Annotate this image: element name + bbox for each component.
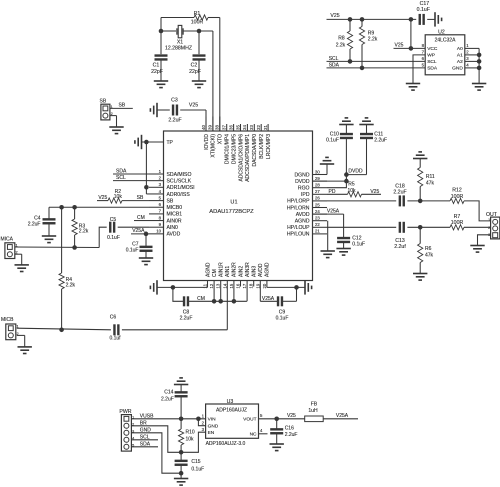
- svg-text:R1: R1: [194, 11, 201, 17]
- svg-text:AIN1: AIN1: [225, 266, 231, 277]
- svg-text:SCL/SCLK: SCL/SCLK: [167, 178, 192, 184]
- svg-text:0.1uF: 0.1uF: [107, 235, 120, 241]
- svg-text:TP: TP: [167, 140, 174, 146]
- svg-text:ADAU1772BCPZ: ADAU1772BCPZ: [209, 209, 254, 215]
- svg-text:A1: A1: [457, 53, 463, 59]
- svg-text:39: 39: [208, 125, 213, 130]
- svg-text:LRCK/MP3: LRCK/MP3: [266, 134, 272, 159]
- svg-text:ADCSDA0/PDM/MP1: ADCSDA0/PDM/MP1: [245, 134, 251, 182]
- svg-text:DVDD: DVDD: [295, 179, 310, 185]
- svg-text:PD: PD: [329, 189, 336, 195]
- svg-text:1uH: 1uH: [308, 408, 318, 414]
- svg-text:0.1uF: 0.1uF: [191, 466, 204, 472]
- svg-text:WP: WP: [427, 53, 435, 59]
- svg-text:C2: C2: [191, 63, 198, 69]
- svg-text:V25A: V25A: [132, 228, 145, 234]
- svg-text:100R: 100R: [451, 194, 464, 200]
- svg-text:IPD: IPD: [301, 192, 310, 198]
- svg-text:AIN2R: AIN2R: [232, 262, 238, 277]
- svg-text:AIN0: AIN0: [167, 225, 178, 231]
- svg-text:V25: V25: [287, 413, 296, 419]
- svg-text:SCL: SCL: [427, 59, 437, 65]
- svg-text:SB: SB: [118, 103, 125, 109]
- svg-text:R6: R6: [425, 246, 432, 252]
- svg-text:AIN1R: AIN1R: [219, 262, 225, 277]
- svg-text:DACSDA/MP0: DACSDA/MP0: [252, 134, 258, 167]
- svg-text:C3: C3: [171, 98, 178, 104]
- svg-text:37: 37: [222, 125, 227, 130]
- svg-text:R11: R11: [426, 174, 435, 180]
- svg-text:26: 26: [315, 196, 320, 201]
- svg-text:C5: C5: [110, 217, 117, 223]
- svg-text:0.1uF: 0.1uF: [126, 248, 139, 254]
- svg-text:C4: C4: [34, 215, 41, 221]
- svg-text:HP/LOUP: HP/LOUP: [287, 225, 310, 231]
- svg-text:C7: C7: [132, 241, 139, 247]
- svg-text:100R: 100R: [451, 220, 464, 226]
- svg-text:15: 15: [229, 283, 234, 288]
- svg-text:RGO: RGO: [298, 186, 310, 192]
- svg-text:27: 27: [315, 189, 320, 194]
- svg-text:2.2uF: 2.2uF: [374, 137, 387, 143]
- svg-text:33: 33: [249, 125, 254, 130]
- svg-text:19: 19: [255, 283, 260, 288]
- svg-text:12: 12: [209, 283, 214, 288]
- svg-text:29: 29: [315, 176, 320, 181]
- svg-text:C17: C17: [420, 1, 430, 7]
- svg-text:31: 31: [263, 125, 268, 130]
- svg-text:0.1uF: 0.1uF: [276, 315, 289, 321]
- svg-text:2.2k: 2.2k: [368, 37, 378, 43]
- svg-text:VIN: VIN: [208, 417, 217, 423]
- svg-text:U1: U1: [230, 200, 237, 206]
- svg-text:0.1uF: 0.1uF: [352, 241, 365, 247]
- svg-text:2.2uF: 2.2uF: [168, 118, 181, 124]
- svg-text:24: 24: [315, 209, 320, 214]
- svg-text:13: 13: [216, 283, 221, 288]
- svg-text:IOVDD: IOVDD: [204, 134, 210, 150]
- svg-text:GND: GND: [208, 424, 219, 430]
- svg-text:AIN3R: AIN3R: [245, 262, 251, 277]
- svg-text:2.2uF: 2.2uF: [285, 432, 298, 438]
- svg-text:1: 1: [488, 218, 490, 222]
- svg-text:AIN0R: AIN0R: [167, 218, 182, 224]
- svg-text:AGND: AGND: [295, 219, 310, 225]
- svg-text:ADR1/MOSI: ADR1/MOSI: [167, 185, 195, 191]
- svg-text:47k: 47k: [425, 253, 434, 259]
- svg-text:MICB: MICB: [1, 317, 14, 323]
- svg-text:AVDD: AVDD: [296, 212, 310, 218]
- svg-text:VOUT: VOUT: [243, 417, 256, 423]
- svg-text:10k: 10k: [186, 437, 195, 443]
- svg-text:CM: CM: [137, 215, 145, 221]
- svg-text:VCC: VCC: [427, 46, 438, 52]
- svg-text:12.288MHZ: 12.288MHZ: [165, 46, 192, 52]
- svg-text:AVDD: AVDD: [167, 232, 181, 238]
- svg-text:28: 28: [315, 183, 320, 188]
- svg-text:MICB1: MICB1: [167, 212, 183, 218]
- svg-text:V25: V25: [330, 13, 339, 19]
- svg-text:AGND: AGND: [265, 262, 271, 277]
- svg-text:22: 22: [315, 222, 320, 227]
- svg-text:2.2uf: 2.2uf: [394, 244, 406, 250]
- svg-text:CM: CM: [197, 296, 205, 302]
- svg-text:2: 2: [488, 226, 490, 230]
- svg-text:34: 34: [242, 125, 247, 130]
- svg-text:NC: NC: [250, 432, 257, 438]
- svg-text:10k: 10k: [114, 194, 123, 200]
- svg-text:DVDD: DVDD: [348, 169, 363, 175]
- svg-text:25: 25: [315, 202, 320, 207]
- svg-text:2.2uF: 2.2uF: [180, 315, 193, 321]
- svg-text:10k: 10k: [347, 188, 356, 194]
- svg-text:ADP160AUJZ: ADP160AUJZ: [216, 407, 247, 413]
- svg-text:2.2uF: 2.2uF: [161, 396, 174, 402]
- svg-text:C14: C14: [164, 389, 173, 395]
- svg-text:2.2k: 2.2k: [336, 43, 346, 49]
- svg-text:47k: 47k: [426, 181, 435, 187]
- svg-text:XTO: XTO: [218, 134, 224, 144]
- svg-text:R10: R10: [186, 429, 195, 435]
- svg-text:21: 21: [315, 229, 320, 234]
- svg-text:2.2uF: 2.2uF: [28, 222, 41, 228]
- svg-text:V25: V25: [189, 103, 198, 109]
- svg-text:DGND: DGND: [295, 172, 310, 178]
- svg-text:AIN2: AIN2: [238, 266, 244, 277]
- svg-text:R8: R8: [338, 36, 345, 42]
- svg-text:GND: GND: [452, 66, 463, 72]
- svg-text:FB: FB: [311, 402, 318, 408]
- svg-text:ADP160AUJZ-3.0: ADP160AUJZ-3.0: [206, 441, 246, 447]
- svg-text:HP/LORN: HP/LORN: [287, 205, 310, 211]
- svg-text:V25A: V25A: [327, 208, 340, 214]
- svg-text:V25A: V25A: [262, 296, 275, 302]
- svg-text:BCLK/MP2: BCLK/MP2: [259, 134, 265, 159]
- svg-text:SCL: SCL: [116, 175, 126, 181]
- svg-text:C6: C6: [110, 315, 117, 321]
- svg-text:22pF: 22pF: [189, 69, 201, 75]
- svg-text:32: 32: [256, 125, 261, 130]
- svg-text:DMIC01/MP4: DMIC01/MP4: [225, 134, 231, 164]
- svg-text:V25A: V25A: [336, 413, 349, 419]
- svg-text:23: 23: [315, 216, 320, 221]
- svg-text:DMIC23/MP5: DMIC23/MP5: [231, 134, 237, 164]
- svg-text:30: 30: [315, 169, 320, 174]
- svg-text:20: 20: [262, 283, 267, 288]
- svg-text:0.1uF: 0.1uF: [326, 137, 339, 143]
- svg-text:16: 16: [236, 283, 241, 288]
- svg-text:2.2k: 2.2k: [79, 229, 89, 235]
- svg-text:35: 35: [235, 125, 240, 130]
- svg-text:ADCSDA1/CKO/MP6: ADCSDA1/CKO/MP6: [238, 134, 244, 182]
- svg-text:40: 40: [201, 125, 206, 130]
- svg-text:U3: U3: [227, 399, 234, 405]
- svg-text:AVDD: AVDD: [258, 263, 264, 277]
- svg-text:0.1uf: 0.1uf: [109, 335, 121, 341]
- svg-text:HP/LORP: HP/LORP: [287, 199, 310, 205]
- svg-text:SDA: SDA: [427, 66, 438, 72]
- svg-text:0.1uF: 0.1uF: [417, 7, 430, 13]
- svg-text:U2: U2: [438, 29, 445, 35]
- svg-text:17: 17: [242, 283, 247, 288]
- svg-text:2.2uF: 2.2uF: [393, 190, 406, 196]
- svg-text:R5: R5: [348, 182, 355, 188]
- svg-text:C18: C18: [395, 183, 405, 189]
- svg-text:14: 14: [222, 283, 227, 288]
- svg-text:100R: 100R: [191, 20, 204, 26]
- svg-text:SCL: SCL: [329, 56, 339, 62]
- svg-text:C13: C13: [395, 238, 405, 244]
- svg-text:CM: CM: [212, 269, 218, 277]
- svg-text:V25: V25: [395, 43, 404, 49]
- svg-text:C16: C16: [285, 425, 294, 431]
- svg-text:SDA: SDA: [116, 168, 127, 174]
- svg-text:10: 10: [156, 229, 161, 234]
- svg-text:18: 18: [249, 283, 254, 288]
- svg-text:C15: C15: [191, 459, 200, 465]
- svg-text:V25: V25: [370, 189, 379, 195]
- svg-text:SB: SB: [137, 195, 144, 201]
- svg-text:AIN3: AIN3: [252, 266, 258, 277]
- svg-text:24LC32A: 24LC32A: [435, 37, 457, 43]
- svg-text:EN: EN: [208, 430, 215, 436]
- svg-text:38: 38: [215, 125, 220, 130]
- svg-text:SB: SB: [167, 198, 174, 204]
- svg-text:HP/LOUN: HP/LOUN: [287, 232, 310, 238]
- svg-text:V25: V25: [98, 195, 107, 201]
- svg-text:MICB0: MICB0: [167, 205, 183, 211]
- svg-text:R12: R12: [452, 188, 462, 194]
- svg-text:36: 36: [228, 125, 233, 130]
- svg-text:2.2k: 2.2k: [66, 282, 76, 288]
- svg-text:AGND: AGND: [205, 262, 211, 277]
- svg-text:A0: A0: [457, 46, 463, 52]
- svg-text:SDA: SDA: [329, 63, 340, 69]
- svg-text:A2: A2: [457, 59, 463, 65]
- svg-text:22pF: 22pF: [151, 69, 163, 75]
- svg-text:C1: C1: [153, 63, 160, 69]
- svg-text:SDA/MISO: SDA/MISO: [167, 172, 192, 178]
- svg-text:ADR0/ISS: ADR0/ISS: [167, 192, 191, 198]
- svg-text:XTI(MCKI): XTI(MCKI): [211, 134, 217, 158]
- svg-text:MICA: MICA: [1, 237, 14, 243]
